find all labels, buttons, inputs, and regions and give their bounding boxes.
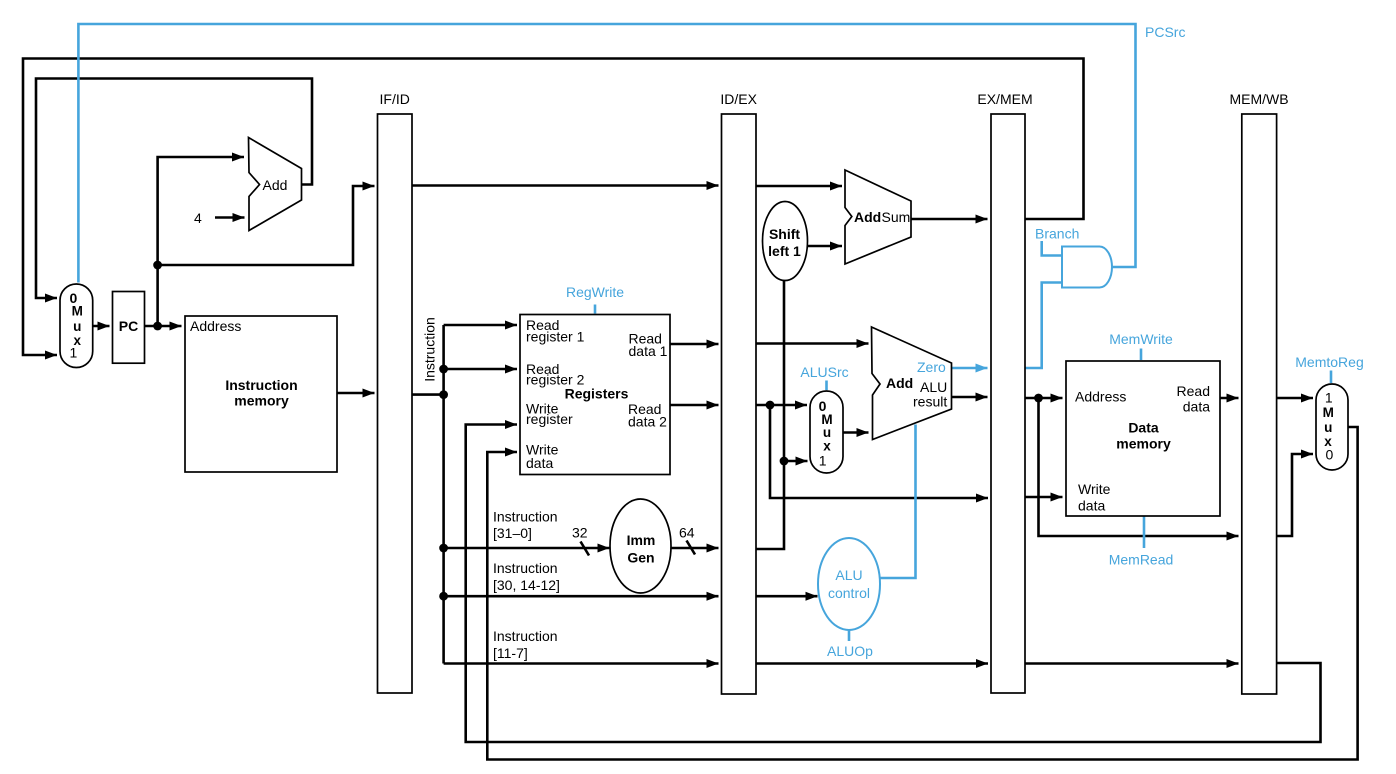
svg-text:ID/EX: ID/EX bbox=[720, 91, 757, 107]
PC register bbox=[113, 292, 145, 364]
svg-text:64: 64 bbox=[679, 525, 695, 541]
svg-text:1: 1 bbox=[819, 453, 827, 469]
node: instruction bus funct bbox=[439, 592, 448, 601]
node: immediate branch bbox=[780, 457, 789, 466]
svg-text:MemtoReg: MemtoReg bbox=[1295, 354, 1363, 370]
svg-text:EX/MEM: EX/MEM bbox=[977, 91, 1032, 107]
node: instruction bus imm bbox=[439, 544, 448, 553]
svg-text:control: control bbox=[828, 585, 870, 601]
wire: instruction [31-0] to Imm Gen bbox=[444, 547, 610, 550]
label mux M1 text bbox=[70, 290, 83, 361]
svg-text:M: M bbox=[1323, 405, 1334, 420]
svg-text:register 1: register 1 bbox=[526, 329, 585, 345]
node: instruction bus main bbox=[439, 390, 448, 399]
label mux M2 text bbox=[819, 398, 833, 469]
slash: 32-bit width mark bbox=[581, 542, 590, 556]
node: instruction bus read reg 2 bbox=[439, 365, 448, 374]
wire: ALU result bypass to MEM/WB bbox=[1039, 398, 1239, 536]
svg-text:1: 1 bbox=[1325, 389, 1333, 405]
svg-text:Instruction: Instruction bbox=[493, 560, 558, 576]
pipeline register EX/MEM bbox=[991, 114, 1025, 693]
svg-text:MemWrite: MemWrite bbox=[1109, 331, 1173, 347]
Imm Gen ellipse bbox=[610, 499, 671, 593]
wire: IF/ID instruction output to bus bbox=[412, 393, 444, 396]
svg-text:data: data bbox=[1183, 399, 1210, 415]
wire: Instruction memory output to IF/ID bbox=[337, 392, 375, 395]
wire: ALU result MEM/WB to mux M3 input 0 bbox=[1277, 454, 1313, 536]
wire: Imm Gen output to ID/EX bbox=[671, 547, 719, 550]
svg-text:1: 1 bbox=[70, 345, 78, 361]
wire: MemWrite tick bbox=[1140, 349, 1143, 361]
wire: Add Sum output to EX/MEM bbox=[911, 218, 988, 221]
svg-text:PCSrc: PCSrc bbox=[1145, 24, 1185, 40]
wire: mux M2 output to ALU bbox=[843, 431, 868, 434]
node: ALU result branch bbox=[1034, 394, 1043, 403]
svg-text:Add: Add bbox=[886, 375, 913, 391]
slash: 64-bit width mark bbox=[687, 541, 696, 555]
wire: PC node vertical up bbox=[156, 265, 159, 326]
wire: immediate to mux M2 input 1 bbox=[784, 460, 808, 463]
svg-text:0: 0 bbox=[1326, 446, 1334, 462]
adder Add Sum (branch target) bbox=[845, 170, 911, 264]
svg-text:data 1: data 1 bbox=[629, 343, 668, 359]
wire: mux M3 output back to Registers Write data bbox=[487, 427, 1357, 760]
wire: mux M1 output to PC bbox=[93, 325, 110, 328]
Shift left 1 ellipse bbox=[763, 202, 808, 281]
wire: MemRead tick bbox=[1143, 517, 1146, 549]
wire: PCSrc from AND gate to mux M1 select bbox=[78, 24, 1135, 283]
wire: instruction vertical bus bbox=[442, 325, 445, 664]
wire: write register num back to Registers Write register bbox=[466, 425, 1321, 743]
wire: ALU result to EX/MEM bbox=[952, 396, 988, 399]
svg-text:Add: Add bbox=[263, 177, 288, 193]
svg-text:memory: memory bbox=[1116, 436, 1171, 452]
svg-text:PC: PC bbox=[119, 318, 138, 334]
svg-text:Write: Write bbox=[1078, 481, 1111, 497]
svg-text:Instruction: Instruction bbox=[493, 628, 558, 644]
AND gate (branch) bbox=[1062, 247, 1112, 288]
svg-text:4: 4 bbox=[194, 210, 202, 226]
ALU main bbox=[872, 327, 952, 440]
wire: Read data 2 down to EX/MEM write data bbox=[770, 405, 988, 498]
wire: write register num ID/EX to EX/MEM bbox=[756, 662, 988, 665]
wire: PC value IF/ID to ID/EX bbox=[412, 184, 719, 187]
svg-text:ALUOp: ALUOp bbox=[827, 643, 873, 659]
pipeline register IF/ID bbox=[378, 114, 413, 693]
mux M3 (MemtoReg) bbox=[1316, 384, 1348, 470]
svg-text:Shift: Shift bbox=[769, 226, 800, 242]
svg-text:x: x bbox=[823, 439, 831, 454]
svg-text:ALUSrc: ALUSrc bbox=[800, 364, 848, 380]
wire: Read data 1 to ID/EX bbox=[670, 343, 719, 346]
wire: Branch control into AND gate bbox=[1042, 241, 1061, 256]
wire: ALU control output to ALU bbox=[880, 425, 916, 579]
svg-text:Data: Data bbox=[1128, 420, 1159, 436]
svg-text:M: M bbox=[72, 304, 83, 319]
node: read data 2 branch bbox=[766, 401, 775, 410]
svg-text:Instruction: Instruction bbox=[422, 317, 438, 382]
wire: PC value to IF/ID bbox=[158, 186, 375, 265]
wire: instruction to Read register 1 bbox=[444, 324, 517, 327]
wire: funct bits to ALU control bbox=[756, 595, 818, 598]
Instruction memory box bbox=[185, 316, 337, 472]
svg-text:data: data bbox=[526, 455, 553, 471]
wire: immediate from ID/EX up to Shift left 1 bbox=[756, 281, 784, 549]
wire: PC output to Instruction memory Address bbox=[145, 325, 182, 328]
pipeline register MEM/WB bbox=[1242, 114, 1277, 694]
wire: ALU result EX/MEM to Data memory Address bbox=[1025, 397, 1063, 400]
label mux M3 text bbox=[1323, 389, 1334, 462]
ALU control ellipse bbox=[818, 538, 880, 630]
svg-text:Add: Add bbox=[854, 209, 881, 225]
node: PC out junction bbox=[153, 322, 162, 331]
svg-text:Instruction: Instruction bbox=[225, 377, 297, 393]
wire: instruction to Read register 2 bbox=[444, 368, 517, 371]
svg-text:u: u bbox=[73, 319, 81, 334]
Data memory box bbox=[1066, 361, 1220, 516]
wire: Zero flag ALU to EX/MEM bbox=[952, 367, 988, 370]
svg-text:Instruction: Instruction bbox=[493, 509, 558, 525]
wire: Read data 2 to ID/EX bbox=[670, 404, 719, 407]
wire: read data MEM/WB to mux M3 input 1 bbox=[1277, 397, 1313, 400]
svg-text:RegWrite: RegWrite bbox=[566, 284, 624, 300]
wire: Read data 2 from ID/EX to mux M2 input 0 bbox=[756, 404, 807, 407]
svg-text:Sum: Sum bbox=[882, 209, 911, 225]
pipeline register ID/EX bbox=[722, 114, 757, 694]
wire: Read data 1 from ID/EX to ALU bbox=[756, 342, 869, 345]
wire: Data memory Read data to MEM/WB bbox=[1220, 397, 1239, 400]
wire: Shift left 1 output to Add Sum bbox=[807, 245, 842, 248]
wire: store data EX/MEM to Data memory Write data bbox=[1025, 496, 1063, 499]
svg-text:MemRead: MemRead bbox=[1109, 552, 1174, 568]
svg-text:Gen: Gen bbox=[627, 550, 654, 566]
svg-text:Branch: Branch bbox=[1035, 226, 1079, 242]
svg-text:Registers: Registers bbox=[565, 386, 629, 402]
svg-text:32: 32 bbox=[572, 525, 588, 541]
svg-text:left 1: left 1 bbox=[768, 243, 801, 259]
Registers file box bbox=[520, 315, 670, 475]
svg-text:memory: memory bbox=[234, 393, 289, 409]
wire: instruction [30,14-12] to ID/EX bbox=[444, 595, 719, 598]
wire: PC value up to Add input bbox=[158, 157, 244, 265]
svg-text:Address: Address bbox=[190, 318, 241, 334]
svg-text:u: u bbox=[1324, 420, 1332, 435]
wire: branch target EX/MEM to mux M1 input 1 bbox=[23, 59, 1084, 356]
svg-text:[11-7]: [11-7] bbox=[493, 645, 528, 661]
svg-text:result: result bbox=[913, 394, 947, 410]
node: PC upper junction bbox=[153, 261, 162, 270]
wire: RegWrite tick bbox=[594, 305, 597, 314]
mux M2 (ALUSrc) bbox=[810, 391, 843, 473]
wire: constant 4 to Add bbox=[215, 216, 245, 219]
svg-text:Zero: Zero bbox=[917, 359, 946, 375]
wire: instruction [11-7] to ID/EX bbox=[444, 662, 719, 665]
adder Add (PC+4) bbox=[249, 138, 302, 231]
wire: ALUOp tick bbox=[848, 631, 851, 642]
wire: PC from ID/EX to Add Sum bbox=[756, 185, 842, 188]
wire: MemtoReg tick bbox=[1330, 371, 1333, 384]
svg-text:Imm: Imm bbox=[627, 532, 656, 548]
svg-text:IF/ID: IF/ID bbox=[380, 91, 410, 107]
svg-text:Address: Address bbox=[1075, 389, 1126, 405]
svg-text:[31–0]: [31–0] bbox=[493, 525, 532, 541]
wire: ALUSrc tick bbox=[825, 381, 828, 391]
wire: Add output PC+4 to mux M1 input 0 bbox=[36, 79, 312, 299]
svg-text:data 2: data 2 bbox=[628, 414, 667, 430]
wire: write register num EX/MEM to MEM/WB bbox=[1025, 662, 1239, 665]
mux M1 (PC source) bbox=[60, 284, 93, 368]
svg-text:ALU: ALU bbox=[835, 567, 862, 583]
svg-text:[30, 14-12]: [30, 14-12] bbox=[493, 577, 560, 593]
wire: Zero flag EX/MEM to AND gate bbox=[1025, 283, 1061, 369]
svg-text:Read: Read bbox=[1177, 383, 1210, 399]
svg-text:data: data bbox=[1078, 498, 1105, 514]
svg-text:MEM/WB: MEM/WB bbox=[1229, 91, 1288, 107]
svg-text:register: register bbox=[526, 411, 573, 427]
